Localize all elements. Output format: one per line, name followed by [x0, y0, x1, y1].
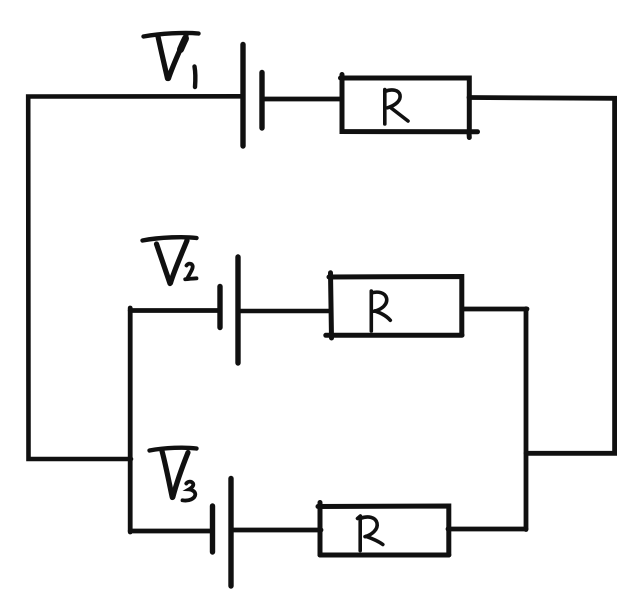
- wire R1 to right vertical, right vertical, and horizontal into node: [469, 98, 615, 454]
- wire V3 branch left: [130, 529, 212, 534]
- resistor R1 box: [341, 75, 478, 138]
- wire R2 to mid-right vertical: [463, 307, 527, 312]
- wire mid-left vertical: [128, 308, 133, 532]
- wire R3 to mid-right vertical: [448, 527, 526, 532]
- label V2: [143, 237, 197, 283]
- wire V1 battery to resistor R1: [262, 97, 341, 102]
- resistor R3 box: [318, 503, 449, 556]
- resistor R2 label R: [371, 291, 390, 331]
- battery V2 long plate: [235, 257, 240, 363]
- wire V2 battery to resistor R2: [238, 309, 331, 314]
- wire mid-right vertical: [524, 309, 529, 530]
- battery V1 long plate: [240, 45, 245, 147]
- label V3: [150, 448, 197, 501]
- battery V1 short plate: [259, 73, 264, 129]
- wire top from battery V1 to left edge, left vertical, bottom-left horizontal: [28, 96, 243, 459]
- resistor R3 label R: [358, 516, 383, 551]
- battery V2 short plate: [217, 287, 222, 328]
- battery V3 short plate: [210, 506, 215, 552]
- label V1: [144, 33, 199, 87]
- resistor R2 box: [326, 273, 462, 338]
- resistor R1 label R: [385, 90, 408, 125]
- battery V3 long plate: [228, 479, 233, 587]
- wire V2 branch left: [130, 308, 220, 313]
- wire V3 battery to resistor R3: [231, 528, 321, 533]
